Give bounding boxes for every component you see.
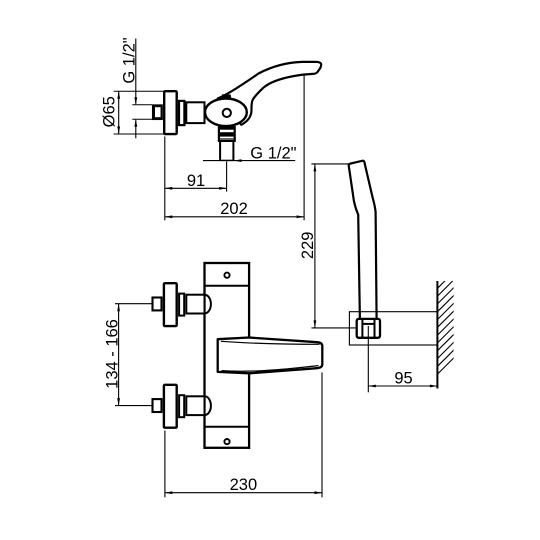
wall thread nut bbox=[153, 105, 162, 119]
svg-text:134 - 166: 134 - 166 bbox=[104, 319, 122, 389]
screw hole top bbox=[224, 273, 229, 278]
left extension line (flange face) for 91/202 bbox=[164, 137, 166, 221]
dimension 134-166 line bbox=[118, 304, 120, 406]
dimension 91 line bbox=[165, 187, 227, 189]
top connection: step ring bbox=[179, 294, 184, 316]
Ø65 arrows bbox=[117, 91, 120, 99]
spout aerator shell bbox=[219, 127, 235, 141]
spout inner bottom line bbox=[222, 366, 319, 372]
wall flange bbox=[164, 91, 177, 134]
svg-text:G 1/2": G 1/2" bbox=[250, 144, 296, 162]
lever hinge wedge bbox=[221, 94, 231, 98]
dimension 230 line bbox=[165, 492, 322, 494]
wall line bbox=[436, 281, 438, 389]
outlet pipe bbox=[219, 141, 221, 161]
svg-text:230: 230 bbox=[230, 476, 258, 494]
dimension 95 line bbox=[368, 385, 437, 387]
dimension 202 line bbox=[165, 216, 304, 218]
134-166 extension lines bbox=[115, 303, 152, 305]
230 right extension line bbox=[321, 373, 323, 498]
G 1/2" arrows bbox=[134, 97, 137, 105]
95 left extension line (holder centre) bbox=[367, 326, 369, 392]
230 left extension line bbox=[164, 431, 166, 498]
screw hole bottom bbox=[224, 439, 229, 444]
svg-text:95: 95 bbox=[394, 370, 412, 388]
top connection: dome arc bbox=[205, 295, 211, 314]
wall hatching bbox=[437, 261, 457, 375]
top connection: cylinder bbox=[186, 295, 204, 314]
spout (front view) bbox=[218, 338, 323, 374]
bottom connection: dome arc bbox=[205, 396, 211, 415]
nut inner thread rect bbox=[155, 107, 162, 118]
shower holder socket bbox=[357, 319, 380, 338]
aerator top band bbox=[220, 128, 234, 130]
G 1/2" dimension line (vertical, two segments) bbox=[135, 39, 137, 105]
outlet leader arrow bbox=[234, 159, 242, 162]
lever handle bbox=[218, 62, 321, 125]
svg-text:202: 202 bbox=[220, 200, 248, 218]
valve body ellipse bbox=[205, 99, 247, 127]
wall bracket arm (thin outline) bbox=[349, 312, 437, 345]
top connection: flange bbox=[164, 283, 177, 326]
top connection: nut bbox=[153, 298, 162, 311]
outlet leader line bbox=[203, 160, 295, 162]
body seam top bbox=[205, 285, 249, 287]
svg-text:229: 229 bbox=[299, 232, 317, 260]
svg-text:91: 91 bbox=[187, 172, 205, 190]
cartridge screw circle bbox=[223, 109, 231, 117]
svg-text:Ø65: Ø65 bbox=[100, 96, 118, 127]
Ø65 dimension line bbox=[118, 91, 120, 134]
body cylinder bbox=[186, 102, 204, 123]
mixer body plate bbox=[205, 263, 250, 448]
229 bottom extension line (holder centre) bbox=[311, 327, 355, 329]
bottom connection: nut bbox=[153, 399, 162, 412]
pipe centerline extension for 91 bbox=[226, 162, 228, 192]
aerator thin line bbox=[220, 138, 234, 140]
bottom connection: cylinder bbox=[186, 396, 204, 415]
aerator dark band bbox=[220, 132, 234, 136]
junction chord at ellipse left bbox=[204, 102, 206, 122]
Ø65 extension lines bbox=[114, 90, 164, 92]
229 top extension line (shower top) bbox=[311, 163, 352, 165]
dimension 229 line bbox=[314, 164, 316, 328]
step ring bbox=[179, 101, 184, 125]
G 1/2" extension lines at nut bbox=[132, 104, 152, 106]
right extension line (lever tip) for 202 bbox=[303, 76, 305, 221]
socket inner cone bbox=[361, 319, 363, 339]
spout inner top line bbox=[221, 341, 320, 344]
bottom connection: flange bbox=[164, 385, 177, 428]
hand shower handle bbox=[349, 161, 377, 320]
bottom connection: step ring bbox=[179, 395, 184, 417]
body seam bottom bbox=[205, 426, 249, 428]
